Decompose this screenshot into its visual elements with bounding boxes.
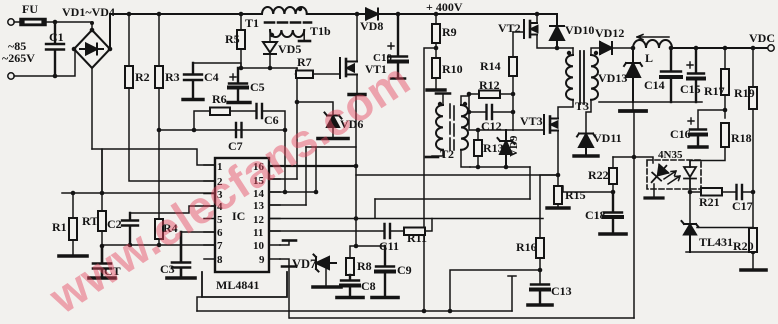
svg-text:~265V: ~265V [2, 51, 35, 65]
wire output rail [671, 47, 768, 49]
capacitor C17 [737, 185, 743, 199]
wire T2 secondary top to R12 [461, 94, 469, 105]
svg-text:T1: T1 [245, 16, 259, 30]
wire R16 bottom [539, 258, 541, 284]
node R9 R10 [434, 46, 439, 51]
svg-text:C8: C8 [361, 279, 376, 293]
capacitor C9 [376, 246, 394, 296]
node R4 bottom [157, 243, 162, 248]
node R5 rail [239, 12, 244, 17]
wire VD7 ground [325, 267, 327, 286]
wire bottom AC [14, 49, 75, 76]
node pin14 a [283, 190, 288, 195]
pin9 bar [282, 265, 296, 268]
wire riser x512 [508, 276, 516, 311]
wire TL431 anode row [686, 251, 753, 253]
capacitor C18 [604, 192, 622, 233]
wire C16 top [698, 110, 725, 129]
capacitor C16 [690, 130, 706, 147]
ground VD6 [318, 137, 348, 141]
ground VD11 [574, 154, 598, 157]
svg-text:C17: C17 [732, 199, 753, 213]
node pin16 [354, 164, 359, 169]
svg-text:R15: R15 [565, 188, 586, 202]
wire pin6 row [181, 231, 215, 233]
svg-text:R1: R1 [52, 220, 67, 234]
4N35 phototransistor [684, 161, 696, 192]
node C7 right [283, 128, 288, 133]
svg-text:L: L [645, 51, 653, 65]
ground C16 [689, 145, 707, 148]
T1 phase dot [298, 7, 302, 11]
wire R15 ground [557, 204, 559, 207]
diode VD11 [577, 134, 595, 156]
svg-text:VD7: VD7 [292, 257, 316, 271]
capacitor C14 [661, 48, 681, 102]
ground R20 [741, 268, 766, 272]
node LED anode [632, 155, 637, 160]
svg-text:VD5: VD5 [278, 42, 301, 56]
wire R5 bottom [240, 49, 242, 68]
node emitter row [688, 190, 693, 195]
resistor R3 [155, 66, 163, 88]
node VD9 bottom [504, 165, 509, 170]
svg-text:R21: R21 [699, 195, 720, 209]
wire T3 secondary bottom to VD11 [586, 100, 591, 133]
node R17 rail [723, 46, 728, 51]
capacitor C8 [341, 275, 359, 296]
wire T2 primary bottom to ground [432, 150, 443, 156]
node C18 [611, 190, 616, 195]
wire R22 bottom to C18 node [612, 184, 614, 192]
svg-text:R6: R6 [212, 92, 227, 106]
svg-text:VD1~VD4: VD1~VD4 [62, 5, 115, 19]
T3 core [580, 51, 584, 104]
wire [14, 21, 20, 23]
wire VT3 gate [513, 129, 544, 131]
wire pin3 row [62, 192, 215, 194]
wire pin10 stub [280, 241, 289, 245]
node R12 right [511, 92, 516, 97]
C15 plus [687, 62, 693, 68]
resistor R19 [752, 48, 754, 87]
resistor R21 [701, 188, 722, 196]
node VT3 source R15 [556, 173, 561, 178]
node R12 left [467, 92, 472, 97]
wire row199 [375, 198, 530, 200]
resistor R18 [721, 123, 729, 147]
wire R17 to R18 [724, 95, 726, 118]
wire pin9 to busB [288, 267, 290, 318]
C10 plus [388, 43, 394, 49]
wire R11 riser to row218 [425, 219, 432, 232]
zener VD7 [314, 255, 337, 272]
svg-text:C3: C3 [160, 262, 175, 276]
svg-text:VD8: VD8 [360, 19, 383, 33]
svg-text:T1b: T1b [310, 24, 331, 38]
wire secondary ground rail [599, 101, 702, 103]
wire pin15 row [269, 178, 297, 180]
node R7 left [295, 72, 300, 77]
wire VT2 source to node [537, 35, 573, 49]
T1b phase dot [270, 33, 274, 37]
T1 core [265, 21, 311, 24]
capacitor C15 electrolytic [688, 48, 704, 102]
wire R8 C9 top row [356, 245, 385, 247]
wire C12 node to top line [468, 112, 470, 130]
wire T1b left to VD5 [269, 30, 271, 41]
wire VT2 gate [513, 31, 524, 33]
resistor R2 top lead [128, 14, 130, 66]
wire R20 to ground [752, 252, 754, 269]
diode VD13 [624, 48, 642, 102]
svg-text:R16: R16 [516, 240, 537, 254]
wire C11 to R11 [390, 230, 404, 232]
wire T3 secondary top to VD12 [591, 48, 600, 55]
wire R6 to C6 [230, 110, 256, 112]
node R19 rail [751, 46, 756, 51]
node C1 top [53, 20, 58, 25]
ground C5 [228, 101, 250, 104]
node R8 top [354, 244, 359, 249]
wire pin12 row [269, 218, 543, 220]
wire row167 to row199 riser [529, 167, 531, 199]
inductor L [633, 40, 672, 48]
T2 phase dot left [438, 102, 442, 106]
wire R4 to pin7 row [158, 239, 160, 245]
wire TL431 cathode [689, 192, 691, 224]
pin10 bar [283, 239, 296, 242]
node R16 C13 [538, 268, 543, 273]
wire R3 down to R4 [158, 88, 160, 219]
wire VT2 drain to rail [536, 14, 538, 24]
wire row175 [356, 174, 558, 176]
capacitor C7 [236, 123, 242, 137]
wire gate column R14 [512, 32, 514, 130]
svg-text:R9: R9 [442, 25, 457, 39]
svg-text:C18: C18 [585, 208, 606, 222]
svg-text:R7: R7 [297, 55, 312, 69]
wire VD6 to ground [332, 127, 334, 137]
wire bridge - output down [91, 68, 93, 149]
resistor R2 [125, 66, 133, 88]
ground LED [645, 196, 663, 199]
wire y130 line [159, 129, 285, 131]
resistor R22 [612, 157, 614, 168]
svg-text:C6: C6 [264, 113, 279, 127]
wire R1 to ground [72, 240, 74, 255]
diode VD12 [600, 42, 612, 54]
wire VT1 drain to rail [356, 14, 358, 62]
node busA x424 [422, 309, 427, 314]
wire ground column right [633, 112, 635, 318]
wire LED cathode ground [653, 184, 655, 197]
wire jog to node line [92, 149, 102, 193]
resistor R12 [469, 93, 479, 95]
svg-text:T3: T3 [575, 99, 589, 113]
resistor R9 [435, 14, 437, 24]
node C12 left [467, 110, 472, 115]
resistor R17 [724, 48, 726, 69]
wire R9 bottom [435, 43, 437, 58]
wire riser x316 [315, 147, 317, 192]
svg-text:R2: R2 [135, 70, 150, 84]
svg-text:FU: FU [22, 2, 38, 16]
resistor R6 [194, 111, 210, 130]
svg-text:7: 7 [217, 240, 223, 252]
wire pin7 row [102, 244, 215, 246]
IC pin numbers [217, 161, 265, 266]
wire T2 primary top tick [442, 94, 444, 105]
ground secondary [632, 102, 634, 110]
svg-text:R8: R8 [357, 259, 372, 273]
capacitor C2 [122, 213, 138, 245]
node VD6 line [295, 100, 300, 105]
zener VD9 [498, 130, 515, 167]
svg-text:R17: R17 [704, 84, 725, 98]
wire R13 VD9 bottom line [470, 166, 530, 168]
transformer T3 right winding [591, 55, 598, 100]
node R6 left [192, 128, 197, 133]
wire VT3 source down [557, 131, 559, 176]
wire C2 top to pin4 [130, 206, 215, 213]
ground R15 [547, 206, 569, 209]
output terminal VDC [768, 45, 774, 51]
wire C4 C5 top line [193, 63, 241, 68]
svg-text:C5: C5 [250, 80, 265, 94]
C16 plus [688, 118, 694, 124]
wire pin16 row [269, 165, 356, 167]
wire R7 to VT1 gate [313, 73, 340, 75]
input terminal upper [8, 19, 14, 25]
wire y147 row [306, 146, 356, 148]
wire pin13 row [269, 204, 306, 206]
wire bridge + output to rail [109, 14, 111, 49]
svg-text:ML4841: ML4841 [216, 278, 259, 292]
node R5 C5 [239, 66, 244, 71]
node R17 R18 C16 [723, 108, 728, 113]
ground C3 [167, 276, 195, 280]
svg-text:4N35: 4N35 [658, 149, 683, 161]
transformer T2 right winding [461, 105, 468, 150]
wire +DC rail [110, 13, 262, 15]
wire T3 primary bottom to VT3 drain [558, 100, 573, 118]
node busA x450 [448, 309, 453, 314]
IC body ML4841 [215, 158, 269, 272]
resistor R13 [477, 130, 479, 140]
capacitor C13 [531, 285, 549, 305]
wire pin9 stub [280, 259, 289, 266]
node R2 rail [127, 12, 132, 17]
diode VD8 [366, 9, 378, 20]
wire R19 down [752, 109, 754, 228]
transformer T3 left winding [566, 55, 573, 100]
node RT CT [100, 244, 105, 249]
resistor R14 [509, 57, 517, 76]
svg-text:R13: R13 [483, 141, 504, 155]
wire R16 node to left [450, 270, 540, 310]
ground C4 [183, 98, 203, 101]
node R9 rail [434, 12, 439, 17]
node VD10 T3 [555, 46, 560, 51]
svg-text:VD13: VD13 [598, 71, 627, 85]
resistor R7 [296, 73, 297, 75]
wire T1b right end [303, 30, 305, 40]
resistor R11 [404, 228, 425, 236]
capacitor C1 [46, 22, 64, 76]
node R1 top [71, 191, 76, 196]
ground C9 [372, 296, 398, 300]
resistor R1 [72, 193, 74, 218]
svg-text:12: 12 [253, 214, 265, 226]
wire top AC [46, 22, 92, 30]
svg-text:VD12: VD12 [595, 26, 624, 40]
MOSFET VT1 [340, 58, 357, 78]
svg-text:C16: C16 [670, 127, 691, 141]
capacitor C5 electrolytic [229, 68, 247, 101]
L arrow [637, 35, 669, 40]
wire RT to CT node [101, 231, 103, 246]
ground C18 [600, 232, 626, 236]
MOSFET VT3 [544, 115, 558, 134]
node R3 y130 [157, 128, 162, 133]
thermistor RT [101, 193, 103, 211]
wire R2 to pin2 [129, 88, 215, 181]
wire y68 line [241, 67, 297, 69]
4N35 LED [647, 162, 671, 186]
capacitor C12 [487, 105, 493, 119]
ground CT [89, 276, 115, 280]
ground R1 [59, 254, 87, 258]
svg-text:R3: R3 [165, 70, 180, 84]
capacitor C4 [184, 63, 202, 98]
transformer T2 left winding [436, 105, 443, 150]
optocoupler 4N35 box [647, 160, 701, 189]
wire VD12 to L [612, 47, 633, 49]
node C1 bottom [53, 74, 58, 79]
svg-text:VT2: VT2 [498, 21, 521, 35]
node RT top [100, 191, 105, 196]
shunt regulator TL431 [682, 221, 699, 252]
svg-text:9: 9 [259, 254, 265, 266]
svg-text:C13: C13 [551, 284, 572, 298]
wire rail continue [307, 13, 366, 15]
svg-text:T2: T2 [440, 147, 454, 161]
wire C18 node to R15 [563, 186, 613, 192]
wire VD6 top [297, 102, 333, 115]
transformer T1b secondary winding [270, 30, 304, 37]
svg-text:VT3: VT3 [520, 114, 543, 128]
node VD5 bottom [268, 66, 273, 71]
C5 plus [230, 74, 236, 80]
node C2 bottom [128, 243, 133, 248]
wire row192 [690, 191, 753, 193]
4N35 arrows [664, 171, 680, 184]
zener VD6 [325, 113, 342, 128]
svg-text:R11: R11 [407, 231, 427, 245]
ground C13 [528, 303, 552, 307]
svg-text:RT: RT [82, 214, 98, 228]
wire C12 left [469, 94, 486, 112]
wire R9 node to T2 column [424, 48, 436, 310]
input terminal lower [8, 73, 14, 79]
node R3 rail [157, 12, 162, 17]
wire R13 VD9 top line [470, 129, 513, 131]
svg-text:C1: C1 [49, 30, 64, 44]
node C14 [669, 46, 674, 51]
svg-text:VDC: VDC [749, 31, 775, 45]
wire R10 to ground [435, 78, 437, 89]
svg-text:11: 11 [253, 227, 263, 239]
svg-text:C15: C15 [680, 82, 701, 96]
bus B [290, 317, 634, 319]
capacitor C11 [385, 224, 391, 238]
svg-text:TL431: TL431 [699, 235, 733, 249]
diode VD5 [263, 42, 277, 54]
wire T3 primary top [572, 48, 574, 55]
resistor R3 top lead [158, 14, 160, 66]
svg-text:R10: R10 [442, 62, 463, 76]
C10 bottom tick [391, 77, 405, 80]
bridge rectifier VD1~VD4 [74, 30, 110, 68]
resistor R20 [749, 228, 757, 252]
wire LED anode [613, 157, 653, 163]
wire C7 node down to pin14 row [284, 130, 286, 192]
capacitor C3 [172, 232, 190, 277]
ground VD7 [313, 285, 341, 289]
wire T2 secondary bottom to row167 [461, 150, 470, 167]
node top line left [476, 128, 481, 133]
transformer T1 primary winding [262, 7, 307, 14]
capacitor CT [93, 246, 111, 277]
wire rail VD8 to R9 [378, 13, 557, 15]
T2 core dashed [450, 104, 454, 150]
wire C6 right [262, 111, 285, 130]
wire R18 to optocoupler [690, 147, 725, 161]
node C15 [694, 46, 699, 51]
node R13 bottom [476, 165, 481, 170]
svg-text:VD9: VD9 [508, 135, 520, 157]
node VD13 [631, 46, 636, 51]
resistor R16 [536, 238, 544, 258]
svg-text:C9: C9 [397, 263, 412, 277]
resistor R5 [240, 14, 242, 30]
resistor R10 [432, 58, 440, 78]
svg-text:C12: C12 [481, 119, 502, 133]
resistor R15 [557, 175, 559, 186]
node C12 right [511, 110, 516, 115]
svg-text:8: 8 [217, 254, 223, 266]
wire box to bus [197, 297, 202, 311]
IC pin stubs left [204, 165, 215, 259]
wire R15 node to R16 [540, 175, 558, 238]
IC pin stubs right [269, 166, 280, 259]
diode VD10 [550, 26, 564, 48]
T3 phase dot right [594, 51, 598, 55]
node C10 rail [396, 12, 401, 17]
T3 phase dot left [567, 51, 571, 55]
T2 phase dot right [463, 102, 467, 106]
wire pin14 row [269, 191, 316, 193]
ground C8 [337, 296, 363, 300]
wire C12 right [492, 111, 513, 113]
svg-text:C4: C4 [204, 70, 219, 84]
wire pin1 route [102, 149, 215, 193]
bus A [197, 310, 512, 312]
VT1 source bar [349, 93, 365, 96]
svg-text:VD10: VD10 [565, 23, 594, 37]
node R20 bottom row [751, 250, 756, 255]
